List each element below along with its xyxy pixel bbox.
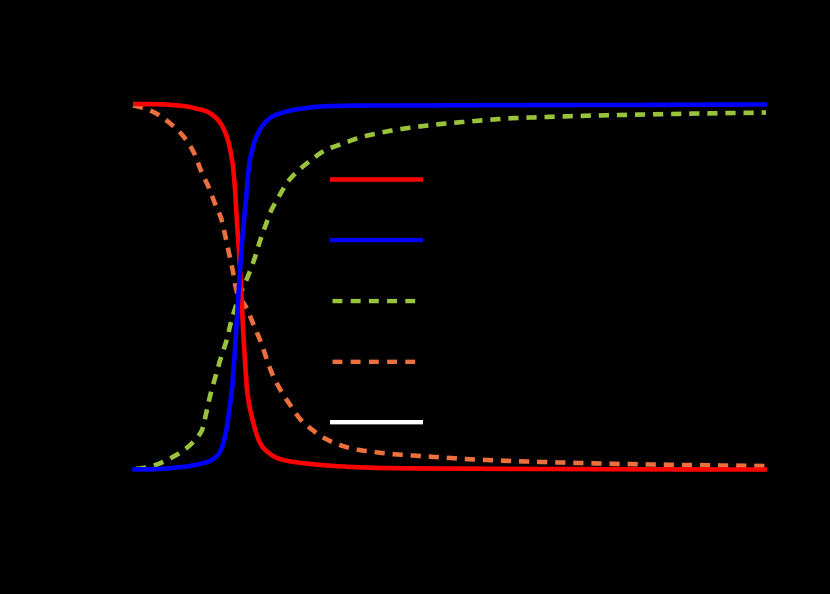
curve: coral dashed decreasing (shallow) [133,106,766,467]
legend line green dashed [330,299,423,303]
curve: blue solid increasing (steep) [132,105,767,470]
curve: red solid decreasing (steep) [133,104,767,470]
legend line red [330,177,423,181]
curve: yellow-green dashed increasing (shallow) [136,113,766,469]
legend line orange dashed [330,360,423,364]
legend line blue [330,238,423,242]
legend line white [330,420,423,424]
